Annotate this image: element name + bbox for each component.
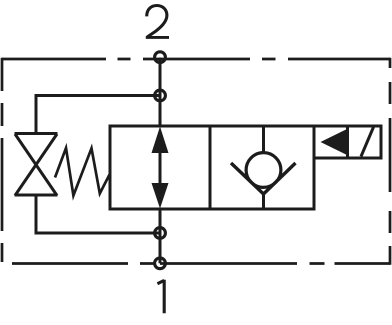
wire upper branch to pilot valve: [36, 96, 160, 134]
pilot poppet valve diagonal (top-right to bottom-left): [15, 134, 57, 196]
node junction upper branch: [155, 90, 166, 101]
solenoid armature triangle (filled): [321, 129, 348, 155]
check valve ball: [246, 153, 281, 188]
node on bottom border (port 1 connection): [155, 258, 166, 269]
valve body cell divider: [209, 126, 212, 209]
node on top border (port 2 connection): [155, 52, 166, 63]
port label 2: [146, 6, 169, 38]
solenoid box: [314, 126, 381, 158]
enclosure border left (dash-dot line): [1, 58, 4, 262]
valve body main envelope: [110, 126, 314, 209]
check valve seat V: [231, 163, 296, 194]
pilot poppet valve bottom seat line: [15, 194, 58, 197]
solenoid coil diagonal: [361, 127, 374, 157]
enclosure border right (dash-dot line): [389, 58, 392, 265]
enclosure border top (dash-dot line): [2, 58, 390, 61]
port label 1: [157, 280, 164, 313]
pilot poppet valve diagonal (top-left to bottom-right): [15, 134, 57, 196]
solenoid box divider: [346, 126, 349, 158]
spring: [55, 148, 110, 196]
wire lower branch from pilot valve: [36, 195, 160, 233]
check valve seat stub bottom: [262, 193, 265, 209]
check valve seat stub top: [262, 126, 265, 153]
wire main vertical axis port2 side: [159, 58, 162, 127]
node junction lower branch: [155, 228, 166, 239]
enclosure border bottom (dash-dot line): [12, 262, 390, 265]
pilot poppet valve top seat line: [15, 132, 58, 135]
flow path double arrow (left cell): [152, 127, 169, 209]
wire main vertical axis port1 side: [159, 209, 162, 263]
